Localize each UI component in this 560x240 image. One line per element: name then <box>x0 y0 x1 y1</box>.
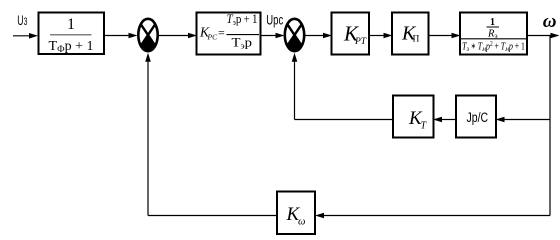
block KП <box>392 13 429 55</box>
wire KPC to summer S2 <box>261 33 285 39</box>
svg-text:TФp + 1: TФp + 1 <box>49 39 94 55</box>
wire branch into JpC block <box>496 117 551 123</box>
wire vertical up into S2 <box>292 53 298 120</box>
summing junction S1 <box>138 19 157 52</box>
block W motor (1/Rэ)/(Tэ*Tмp²+Tмp+1) <box>460 13 527 55</box>
svg-text:ω: ω <box>298 217 305 228</box>
block G1 filter 1/(TФp+1) <box>39 13 105 56</box>
wire filter to summer S1 <box>104 33 138 39</box>
summing junction S2 <box>285 19 304 52</box>
wire JpC to KT <box>433 117 456 123</box>
svg-text:Tэp + 1: Tэp + 1 <box>227 12 258 27</box>
block Kω <box>277 192 315 235</box>
svg-text:ω: ω <box>543 11 557 32</box>
svg-text:PT: PT <box>354 37 367 47</box>
wire KPT to KП <box>369 33 393 39</box>
svg-text:PC: PC <box>207 33 219 42</box>
wire bottom feedback horizontal into Kω <box>315 213 550 219</box>
block KT <box>393 96 434 138</box>
svg-text:1: 1 <box>490 17 495 28</box>
wire vertical up into S1 <box>145 53 151 216</box>
wire input arrow to filter block <box>13 33 38 39</box>
block JpC <box>456 96 496 138</box>
wire KП to motor block <box>429 33 461 39</box>
svg-text:U3: U3 <box>17 13 27 29</box>
node U3 input label <box>17 13 27 29</box>
wire S2 to block KPT <box>305 33 332 39</box>
wire motor output to omega <box>527 33 560 39</box>
svg-text:П: П <box>413 35 420 45</box>
svg-text:=: = <box>218 26 225 40</box>
block KPC regulator (Tэp+1)/(Tэp) <box>197 12 261 55</box>
block KPT <box>332 13 370 55</box>
svg-text:1: 1 <box>67 16 75 33</box>
wire Kω output to left <box>148 215 277 217</box>
wire vertical takeoff from output line <box>549 36 551 216</box>
svg-text:Upc: Upc <box>266 12 283 28</box>
svg-text:Jp/C: Jp/C <box>467 110 489 126</box>
wire S1 to block KPC <box>159 33 197 39</box>
wire KT output to left <box>295 119 394 121</box>
node Upc label <box>266 12 283 28</box>
